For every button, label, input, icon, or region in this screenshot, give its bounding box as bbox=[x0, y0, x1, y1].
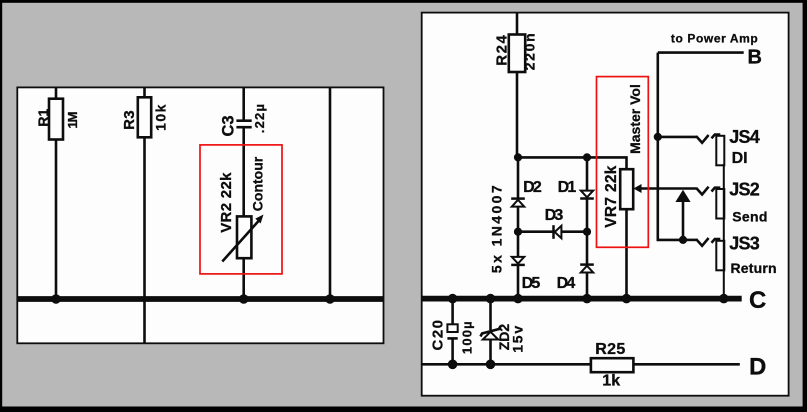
wire C3 to VR2 bbox=[242, 128, 245, 216]
svg-text:220n: 220n bbox=[522, 32, 538, 71]
diode D3 bbox=[554, 225, 562, 239]
svg-text:D3: D3 bbox=[545, 207, 564, 224]
capacitor C3 bbox=[236, 121, 251, 128]
wire D1 to mid node bbox=[586, 199, 589, 265]
junction dot C20-wireD bbox=[448, 360, 458, 370]
wire R24 down to node bbox=[516, 72, 519, 157]
switch contact JS3 bbox=[696, 238, 709, 246]
wire top horizontal to VR7 bbox=[518, 157, 627, 169]
junction dot mid right bbox=[583, 228, 591, 236]
svg-text:JS4: JS4 bbox=[729, 127, 759, 147]
resistor R1 bbox=[49, 99, 63, 140]
zener ZD2 bbox=[481, 299, 501, 365]
svg-text:R1: R1 bbox=[35, 108, 51, 126]
svg-text:to Power Amp: to Power Amp bbox=[671, 31, 758, 45]
normalling arrow JS3 to JS2 bbox=[675, 190, 690, 240]
junction dot JS4 branch bbox=[654, 133, 662, 141]
junction dot R24 top-wire bbox=[514, 153, 522, 161]
wire right diode chain upper bbox=[586, 157, 589, 191]
junction dot JS3 branch bbox=[679, 236, 687, 244]
potentiometer VR2 bbox=[222, 215, 263, 262]
red highlight box VR7 bbox=[597, 77, 649, 248]
svg-text:10k: 10k bbox=[153, 103, 169, 131]
diode D4 bbox=[580, 265, 594, 273]
diode D2 bbox=[511, 199, 525, 207]
svg-text:VR2 22k: VR2 22k bbox=[218, 172, 235, 233]
junction dot mid left bbox=[514, 228, 522, 236]
jack JS2 bbox=[712, 188, 725, 219]
switch contact JS4 bbox=[696, 135, 709, 143]
svg-text:DI: DI bbox=[732, 150, 748, 167]
junction dot R1-bus bbox=[51, 294, 61, 304]
junction dot D1 top-wire bbox=[583, 153, 591, 161]
resistor R3 bbox=[138, 97, 151, 137]
svg-text:Contour: Contour bbox=[250, 156, 266, 211]
svg-text:D5: D5 bbox=[522, 275, 541, 292]
svg-text:VR7 22k: VR7 22k bbox=[603, 165, 620, 227]
junction dot D4-busC bbox=[582, 294, 592, 304]
svg-text:15v: 15v bbox=[510, 324, 526, 353]
wiper arrow VR7 bbox=[634, 184, 697, 193]
ground bus left panel bbox=[17, 296, 383, 302]
wire JS4 branch bbox=[658, 136, 696, 139]
svg-text:C3: C3 bbox=[220, 115, 238, 136]
junction dot ZD2-busC bbox=[486, 294, 496, 304]
junction dot D5-busC bbox=[513, 294, 523, 304]
potentiometer VR7 bbox=[620, 169, 633, 209]
wire VR2 to bus bbox=[242, 258, 245, 299]
wire D right segment bbox=[633, 363, 740, 366]
resistor R24 bbox=[509, 35, 525, 73]
junction dot VR2-bus bbox=[239, 294, 249, 304]
svg-text:5x 1N4007: 5x 1N4007 bbox=[489, 183, 505, 273]
svg-text:JS2: JS2 bbox=[729, 179, 759, 199]
right schematic panel bbox=[422, 13, 789, 396]
svg-text:.22µ: .22µ bbox=[252, 103, 267, 133]
diode D1 bbox=[580, 191, 594, 199]
svg-text:C: C bbox=[749, 287, 766, 314]
red highlight box VR2 bbox=[200, 145, 282, 274]
svg-text:R3: R3 bbox=[121, 110, 138, 130]
wire left diode chain upper bbox=[517, 157, 520, 198]
svg-text:R25: R25 bbox=[595, 341, 625, 358]
wire D2 to mid node bbox=[517, 207, 520, 258]
wire right vertical bbox=[329, 88, 332, 299]
diode D5 bbox=[511, 257, 525, 265]
svg-text:JS3: JS3 bbox=[729, 234, 759, 254]
svg-text:D4: D4 bbox=[557, 275, 576, 292]
jack JS4 bbox=[712, 135, 725, 166]
svg-text:D: D bbox=[749, 353, 766, 380]
wire R1 to bus bbox=[55, 140, 58, 300]
wire D left segment bbox=[422, 363, 591, 366]
capacitor C20 bbox=[447, 299, 457, 365]
ground bus C bbox=[422, 296, 742, 302]
svg-text:1k: 1k bbox=[602, 373, 620, 390]
jack JS3 bbox=[712, 239, 725, 270]
svg-text:C20: C20 bbox=[429, 318, 446, 350]
svg-text:Master Vol: Master Vol bbox=[627, 84, 643, 154]
svg-text:Return: Return bbox=[731, 260, 777, 276]
wire VR7 to bus bbox=[625, 209, 628, 298]
junction dot C20-busC bbox=[448, 294, 458, 304]
wire jack sleeve chain bbox=[723, 164, 725, 299]
svg-text:D1: D1 bbox=[558, 179, 577, 196]
junction dot sleeve-busC bbox=[719, 294, 729, 304]
wire R24 top bbox=[516, 13, 519, 34]
svg-text:100µ: 100µ bbox=[460, 320, 475, 354]
wire R3 through bus to panel bottom bbox=[143, 137, 146, 343]
svg-text:D2: D2 bbox=[523, 179, 542, 196]
wire node B vertical bbox=[658, 53, 683, 240]
svg-text:1M: 1M bbox=[65, 112, 80, 128]
wire C3 top bbox=[242, 88, 245, 120]
switch contact JS2 bbox=[696, 187, 709, 195]
wire R3 top bbox=[143, 88, 146, 98]
wire JS3 branch bbox=[683, 239, 696, 242]
wire D5 to bus bbox=[517, 265, 520, 299]
wire R1 top bbox=[55, 88, 58, 99]
left schematic panel bbox=[17, 87, 383, 343]
svg-text:B: B bbox=[748, 47, 762, 69]
wire D4 to bus bbox=[586, 273, 589, 299]
resistor R25 bbox=[591, 358, 634, 372]
wire mid horizontal D3 bbox=[518, 230, 587, 233]
junction dot VR7-busC bbox=[622, 294, 632, 304]
junction dot ZD2-wireD bbox=[486, 360, 496, 370]
svg-text:Send: Send bbox=[732, 209, 767, 225]
wire node B horizontal bbox=[658, 51, 744, 54]
svg-text:R24: R24 bbox=[493, 34, 510, 66]
junction dot right wire-bus bbox=[325, 294, 335, 304]
